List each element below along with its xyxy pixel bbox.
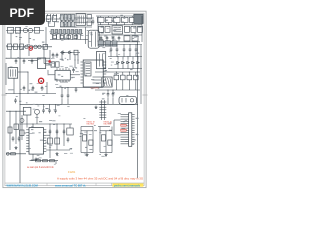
svg-text:www.emanual TC 887 tk: www.emanual TC 887 tk	[54, 183, 86, 187]
svg-text:pedro.servi.manuals: pedro.servi.manuals	[114, 183, 141, 187]
svg-text:PDF: PDF	[9, 6, 34, 20]
svg-text:0.4+(5V): 0.4+(5V)	[91, 87, 99, 89]
svg-text:KIA 7808: KIA 7808	[104, 123, 112, 126]
svg-text:ve sam pin 3 and volt 0.4v: ve sam pin 3 and volt 0.4v	[27, 166, 55, 169]
svg-text:F1201: F1201	[68, 170, 76, 174]
svg-text:WWW.MANUALSLIB.COM: WWW.MANUALSLIB.COM	[7, 183, 38, 187]
svg-text:KIA 7805: KIA 7805	[87, 123, 95, 126]
svg-text:A supply volts 3 free 44 ohm 3: A supply volts 3 free 44 ohm 35 volt DC …	[57, 176, 144, 180]
